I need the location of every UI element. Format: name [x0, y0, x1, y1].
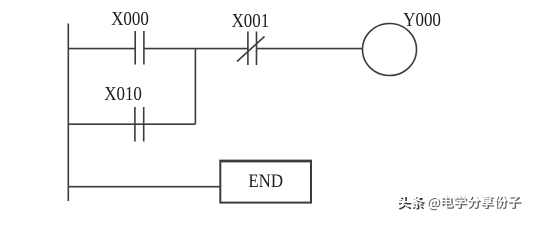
svg-text:X001: X001: [232, 11, 270, 32]
svg-text:Y000: Y000: [403, 10, 441, 31]
svg-text:X000: X000: [111, 9, 149, 30]
svg-text:X010: X010: [104, 84, 142, 105]
svg-text:END: END: [248, 172, 283, 192]
